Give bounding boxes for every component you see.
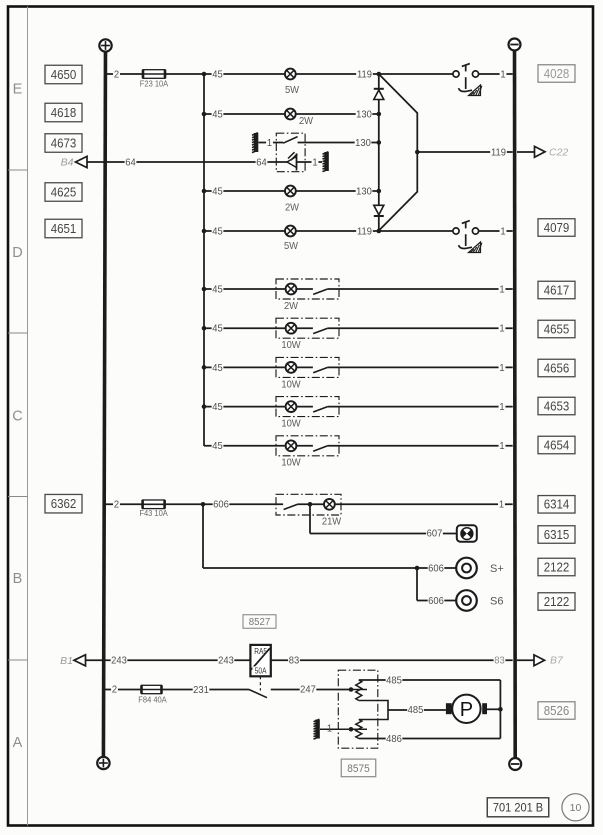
- svg-text:8575: 8575: [347, 762, 370, 774]
- svg-text:243: 243: [111, 655, 127, 666]
- svg-text:1: 1: [499, 323, 504, 334]
- svg-text:243: 243: [218, 655, 234, 666]
- svg-text:45: 45: [212, 186, 222, 197]
- svg-text:10W: 10W: [281, 457, 301, 468]
- svg-text:S+: S+: [490, 563, 504, 575]
- svg-text:4079: 4079: [544, 220, 570, 235]
- svg-text:F43 10A: F43 10A: [139, 509, 168, 518]
- svg-text:2: 2: [114, 69, 119, 80]
- svg-text:B: B: [13, 571, 23, 587]
- svg-text:45: 45: [212, 402, 222, 413]
- svg-text:4618: 4618: [51, 105, 77, 120]
- svg-text:119: 119: [491, 147, 506, 158]
- svg-text:486: 486: [386, 734, 402, 745]
- svg-text:45: 45: [212, 69, 222, 80]
- svg-text:64: 64: [256, 157, 267, 168]
- svg-text:485: 485: [408, 705, 424, 716]
- svg-text:F23 10A: F23 10A: [140, 80, 169, 89]
- svg-text:4625: 4625: [51, 185, 77, 200]
- svg-text:C22: C22: [549, 146, 568, 158]
- svg-text:4651: 4651: [51, 221, 77, 236]
- svg-text:2W: 2W: [299, 116, 314, 127]
- svg-text:4673: 4673: [51, 136, 77, 151]
- svg-text:1: 1: [499, 363, 504, 374]
- svg-text:4617: 4617: [544, 283, 570, 298]
- svg-text:RA5: RA5: [254, 647, 267, 657]
- svg-text:6314: 6314: [544, 497, 570, 512]
- svg-text:4656: 4656: [544, 361, 570, 376]
- svg-text:45: 45: [212, 109, 222, 120]
- svg-text:130: 130: [355, 138, 371, 149]
- svg-text:B1: B1: [60, 655, 73, 667]
- svg-text:130: 130: [356, 109, 372, 120]
- svg-text:8526: 8526: [544, 703, 570, 718]
- svg-text:5W: 5W: [284, 241, 299, 252]
- svg-text:1: 1: [500, 69, 505, 80]
- svg-text:1: 1: [499, 499, 504, 510]
- svg-text:5W: 5W: [285, 85, 300, 96]
- svg-text:119: 119: [357, 69, 372, 80]
- svg-text:45: 45: [212, 323, 222, 334]
- svg-text:B4: B4: [61, 157, 74, 169]
- svg-text:4653: 4653: [544, 399, 570, 414]
- svg-text:2122: 2122: [544, 560, 570, 575]
- svg-text:64: 64: [125, 157, 136, 168]
- svg-text:F84 40A: F84 40A: [138, 695, 167, 704]
- svg-text:1: 1: [499, 402, 504, 413]
- svg-text:21W: 21W: [322, 516, 342, 527]
- svg-text:2W: 2W: [284, 301, 299, 312]
- svg-text:E: E: [13, 82, 23, 98]
- svg-text:1: 1: [267, 138, 272, 149]
- svg-text:1: 1: [499, 441, 504, 452]
- svg-text:606: 606: [428, 596, 444, 607]
- svg-text:D: D: [12, 245, 22, 261]
- svg-text:2122: 2122: [544, 594, 570, 609]
- svg-text:4650: 4650: [51, 67, 77, 82]
- svg-text:S6: S6: [490, 595, 503, 607]
- svg-text:45: 45: [212, 363, 222, 374]
- svg-text:6362: 6362: [51, 497, 77, 512]
- svg-text:P: P: [460, 699, 473, 721]
- svg-text:A: A: [13, 735, 23, 751]
- svg-text:231: 231: [193, 685, 209, 696]
- svg-text:45: 45: [212, 226, 222, 237]
- svg-text:1: 1: [499, 284, 504, 295]
- svg-text:2: 2: [114, 499, 119, 510]
- svg-text:10W: 10W: [281, 379, 301, 390]
- svg-text:130: 130: [356, 186, 372, 197]
- svg-text:607: 607: [427, 528, 443, 539]
- svg-text:6315: 6315: [544, 527, 570, 542]
- svg-text:1: 1: [327, 723, 332, 734]
- svg-text:4028: 4028: [544, 66, 570, 81]
- svg-text:701 201 B: 701 201 B: [493, 802, 544, 814]
- svg-text:45: 45: [212, 284, 222, 295]
- svg-text:8527: 8527: [249, 617, 271, 628]
- svg-text:1: 1: [312, 157, 317, 168]
- svg-text:1: 1: [500, 226, 505, 237]
- svg-text:83: 83: [494, 655, 504, 666]
- svg-text:2W: 2W: [285, 202, 300, 213]
- svg-text:10W: 10W: [281, 340, 301, 351]
- svg-text:485: 485: [386, 675, 402, 686]
- svg-text:50A: 50A: [255, 666, 267, 676]
- svg-text:119: 119: [357, 226, 372, 237]
- svg-text:4654: 4654: [544, 438, 570, 453]
- svg-text:45: 45: [212, 441, 222, 452]
- svg-text:B7: B7: [550, 655, 564, 667]
- svg-text:606: 606: [428, 563, 444, 574]
- svg-text:606: 606: [213, 499, 229, 510]
- svg-text:83: 83: [289, 655, 299, 666]
- svg-text:4655: 4655: [544, 322, 570, 337]
- svg-text:2: 2: [112, 684, 117, 695]
- svg-text:C: C: [12, 409, 22, 425]
- svg-text:10W: 10W: [281, 418, 301, 429]
- svg-text:10: 10: [570, 802, 582, 814]
- svg-text:247: 247: [300, 684, 316, 695]
